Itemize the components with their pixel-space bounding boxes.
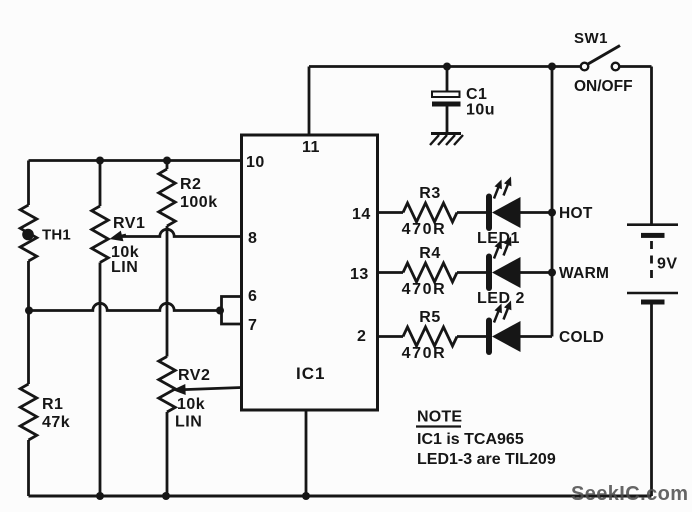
wire: battery bottom lead [650,305,653,497]
wire: top supply rail [309,65,581,68]
node: WARM junction [548,269,556,277]
node: R2 top junction [163,157,171,165]
svg-text:470R: 470R [402,345,447,362]
node: IC bottom junction [302,492,310,500]
svg-text:10u: 10u [466,102,495,119]
LED1 [489,177,521,229]
svg-text:470R: 470R [402,281,447,298]
svg-text:R2: R2 [180,176,201,193]
svg-text:LED1-3 are TIL209: LED1-3 are TIL209 [417,451,556,468]
svg-text:ON/OFF: ON/OFF [574,78,633,95]
svg-text:LIN: LIN [111,259,138,276]
wire: RV2 bottom to bottom rail [166,412,169,496]
wire: bottom ground rail [29,495,652,498]
svg-text:HOT: HOT [559,205,593,222]
svg-text:TH1: TH1 [42,227,71,244]
svg-text:NOTE: NOTE [417,409,462,426]
wire: bracket to pin 6 and pin 7 [222,297,242,325]
op-amp/comparator IC1 TCA965 box [242,135,378,410]
node: junction at TH1/R1 [25,307,33,315]
svg-text:9V: 9V [657,256,678,273]
potentiometer RV2 10k LIN [159,357,211,431]
wire: IC to RV2 wiper [184,388,242,390]
svg-text:7: 7 [248,317,257,334]
svg-text:R5: R5 [419,309,440,326]
wire: battery top lead [650,67,653,225]
svg-text:SW1: SW1 [574,30,608,47]
wire: RV1 top [99,161,102,207]
resistor R4 470R [402,245,457,298]
node: HOT junction [548,209,556,217]
wire: LED to WARM node [521,271,553,274]
node: C1 junction [443,63,451,71]
svg-text:R3: R3 [419,185,440,202]
svg-text:IC1 is TCA965: IC1 is TCA965 [417,431,524,448]
resistor R2 100k [159,169,218,226]
wire: switch to battery [619,65,651,68]
svg-text:WARM: WARM [559,265,609,282]
svg-text:LIN: LIN [175,414,202,431]
wire: resistor to LED [457,271,486,274]
node: RV1 top junction [96,157,104,165]
svg-text:IC1: IC1 [296,364,325,383]
svg-text:RV2: RV2 [178,367,210,384]
svg-text:R4: R4 [419,245,440,262]
svg-text:8: 8 [248,230,257,247]
wire: IC bottom to ground rail [305,410,308,496]
wire: LED to HOT node [521,211,553,214]
svg-text:COLD: COLD [559,329,604,346]
wire: IC pin 8 to RV1 wiper (hops over R2 column) [122,229,242,236]
LED2 [489,237,521,289]
resistor R3 470R [402,185,457,238]
wire: R1 to bottom rail [27,440,30,496]
svg-text:6: 6 [248,288,257,305]
wire: TH1 to R1 [27,261,30,384]
wire: upper-left rail to IC pin 10 [29,159,242,162]
svg-text:13: 13 [350,266,369,283]
node: RV2 bottom junction [162,492,170,500]
wire: IC pin to resistor R3 [378,211,404,214]
node: LED column junction [548,63,556,71]
svg-text:R1: R1 [42,396,63,413]
wire: RV1 bottom to bottom rail [99,263,102,497]
wire: resistor to LED [457,211,486,214]
wire: TH1/R1 junction to IC pins 6,7 (hops over RV1 and RV2 columns) [29,303,221,310]
svg-text:47k: 47k [42,414,70,431]
svg-text:RV1: RV1 [113,215,145,232]
resistor R1 47k [20,384,70,440]
svg-text:C1: C1 [466,86,487,103]
wire: pin 11 riser [308,67,311,136]
svg-text:11: 11 [302,139,320,156]
wire: IC pin to resistor R4 [378,271,404,274]
wire: LED to COLD node [521,335,553,338]
note text [416,409,556,469]
svg-text:2: 2 [357,328,366,345]
potentiometer RV1 10k LIN [92,206,146,276]
wire: resistor to LED [457,335,486,338]
svg-text:SeekIC.com: SeekIC.com [571,483,688,505]
battery 9V [627,225,678,305]
svg-text:10: 10 [246,154,265,171]
svg-text:470R: 470R [402,221,447,238]
wire: R2 bottom down to RV2 [166,226,169,357]
wire: IC pin to resistor R5 [378,335,404,338]
capacitor C1 10u [432,67,495,134]
ground [430,134,463,146]
wire: LED column vertical [551,67,554,337]
switch SW1 ON/OFF [574,30,633,95]
node: junction before pins 6/7 [216,307,224,315]
svg-text:10k: 10k [177,396,205,413]
resistor R5 470R [402,309,457,362]
wire: R2 top stub [166,161,169,170]
node: RV1 bottom junction [96,492,104,500]
svg-text:14: 14 [352,206,371,223]
RV1 wiper arrow [120,235,126,236]
wire: left rail vertical (TH1/R1 branch) [27,161,30,206]
LED3 [489,301,521,353]
svg-text:100k: 100k [180,194,218,211]
thermistor TH1 [20,205,71,261]
